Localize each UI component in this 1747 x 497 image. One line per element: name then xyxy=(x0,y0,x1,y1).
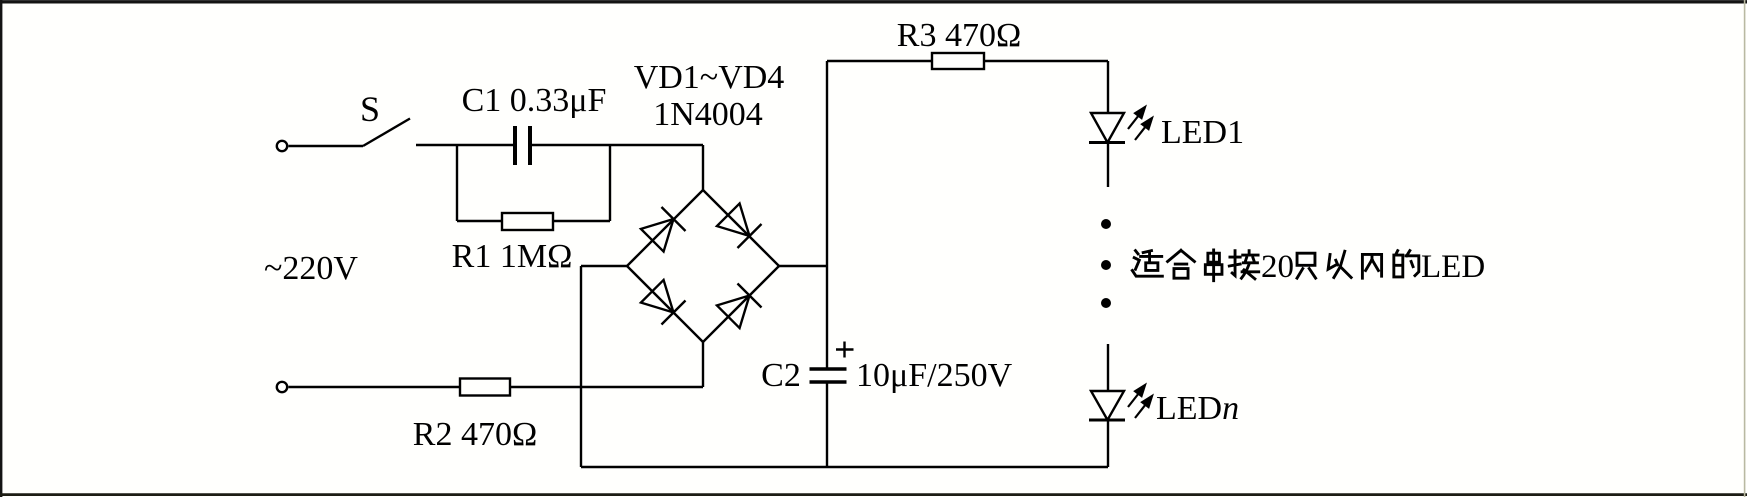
resistor R1 body xyxy=(502,213,553,230)
wire terminal to switch xyxy=(289,145,364,147)
svg-text:C2: C2 xyxy=(761,357,801,394)
LEDn cathode bar xyxy=(1089,419,1125,422)
glyph he (combine) xyxy=(1168,250,1195,278)
diode VD1 top-left xyxy=(640,207,685,252)
bottom rail xyxy=(581,466,1108,468)
resistor R3 body xyxy=(932,53,984,69)
glyph chuan (string) xyxy=(1205,250,1222,281)
left rail down xyxy=(580,266,582,467)
svg-text:LEDn: LEDn xyxy=(1156,390,1239,427)
resistor R2 body xyxy=(460,379,510,396)
diode VD4 bottom-right xyxy=(716,283,761,328)
svg-text:R1 1MΩ: R1 1MΩ xyxy=(452,238,573,275)
glyph shi (suit) xyxy=(1132,251,1162,277)
svg-text:C1 0.33μF: C1 0.33μF xyxy=(462,82,607,119)
LED rail down to LED1 xyxy=(1107,61,1109,113)
glyph nei (inside) xyxy=(1362,254,1381,278)
wire above LEDn xyxy=(1107,344,1109,391)
LED1 triangle xyxy=(1091,113,1124,143)
LEDn light arrows xyxy=(1128,385,1152,418)
top wire to R3 xyxy=(827,60,932,62)
capacitor C2 top plate xyxy=(810,367,847,370)
bridge edge bottom-right xyxy=(703,266,779,342)
positive rail lower segment xyxy=(826,382,828,467)
wire below LED1 xyxy=(1107,143,1109,188)
wire terminal to R2 xyxy=(289,386,461,388)
glyph zhi (only) xyxy=(1297,253,1316,278)
capacitor C1 left plate xyxy=(513,126,517,165)
terminal top-left xyxy=(277,141,287,151)
LEDn triangle xyxy=(1091,391,1124,420)
svg-text:~220V: ~220V xyxy=(264,250,358,287)
wire switch to C1 left plate xyxy=(416,144,513,146)
glyph de (of) xyxy=(1394,251,1419,277)
wire right branch down to R1 xyxy=(609,145,611,221)
switch S arm xyxy=(363,119,410,147)
glyph jie (connect) xyxy=(1229,251,1258,279)
wire bridge right vertex to positive rail xyxy=(779,265,827,267)
LED1 cathode bar xyxy=(1089,141,1125,144)
svg-text:S: S xyxy=(360,89,380,129)
diode VD2 top-right xyxy=(716,203,761,248)
bridge edge top-right xyxy=(703,190,779,266)
terminal bottom-left xyxy=(277,382,287,392)
wire down to bridge top vertex xyxy=(702,145,704,190)
diode VD3 bottom-left xyxy=(640,279,685,324)
svg-text:20: 20 xyxy=(1261,249,1294,285)
C2 plus sign xyxy=(836,348,854,350)
wire R1 branch right xyxy=(553,220,610,222)
svg-text:LED: LED xyxy=(1421,249,1485,285)
positive rail upper segment xyxy=(826,61,828,369)
svg-text:1N4004: 1N4004 xyxy=(653,96,763,133)
svg-text:R2 470Ω: R2 470Ω xyxy=(413,416,537,453)
LED1 light arrows xyxy=(1128,107,1152,140)
svg-text:R3 470Ω: R3 470Ω xyxy=(897,17,1021,54)
wire R2 to bridge bottom corner xyxy=(510,386,703,388)
CJK glyphs drawn as strokes xyxy=(1132,250,1419,281)
bridge edge bottom-left xyxy=(627,266,703,342)
wire below LEDn xyxy=(1107,420,1109,467)
wire left branch down to R1 xyxy=(456,145,458,221)
bridge edge top-left xyxy=(627,190,703,266)
wire bridge bottom vertex down xyxy=(702,342,704,387)
ellipsis dots xyxy=(1101,219,1111,308)
wire R1 branch left xyxy=(457,220,502,222)
wire bridge left vertex to left rail xyxy=(581,265,627,267)
capacitor C1 right plate xyxy=(528,126,532,165)
glyph yi (within) xyxy=(1328,251,1351,277)
capacitor C2 bottom plate xyxy=(810,380,847,383)
svg-text:LED1: LED1 xyxy=(1161,114,1244,151)
wire C1 right plate to bridge top corner xyxy=(532,144,703,146)
svg-text:10μF/250V: 10μF/250V xyxy=(856,357,1013,394)
wire R3 to LED rail xyxy=(984,60,1108,62)
svg-text:VD1~VD4: VD1~VD4 xyxy=(634,59,785,96)
